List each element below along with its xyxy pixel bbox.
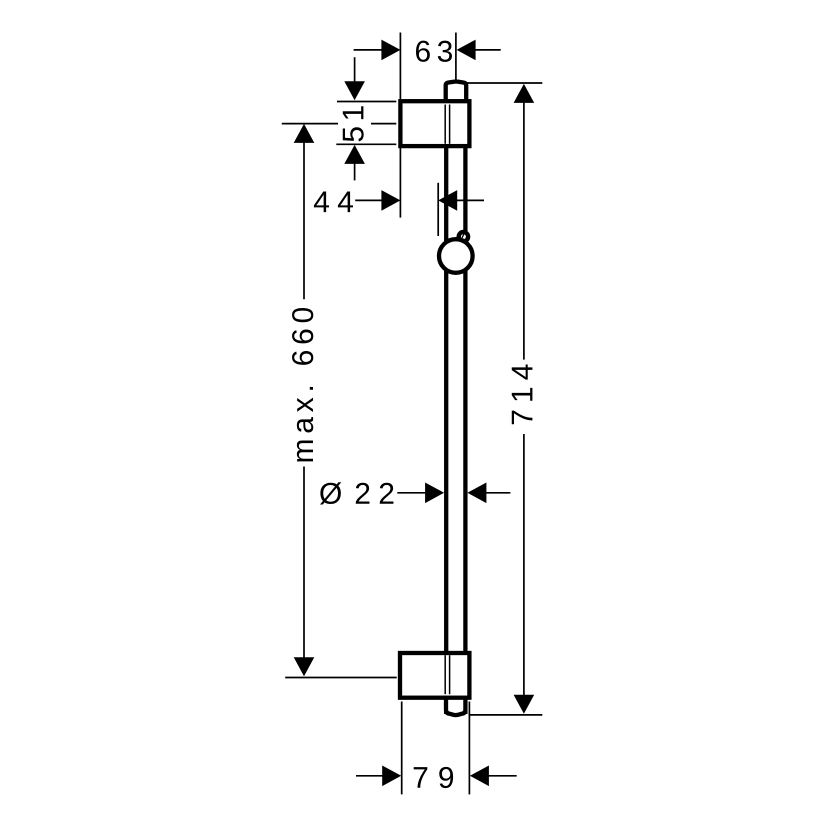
dim max660 upper stem [303, 142, 305, 299]
dim 44 extension line left [399, 148, 401, 218]
dim 63 right leader [475, 49, 501, 51]
bottom bracket hidden tube line a [444, 655, 446, 694]
dim 44 left arrow [438, 190, 457, 211]
dim max660 up arrow [294, 124, 315, 143]
dim 79 right leader [488, 775, 516, 777]
dim 79 left arrow head [470, 766, 489, 787]
dim max660 top reference line part1 [282, 123, 338, 125]
rail tube left edge [444, 84, 448, 714]
dim 51 top tick [337, 101, 396, 103]
dim 714 label [512, 364, 533, 424]
dim 63 left arrow [381, 40, 400, 61]
dim 714 lower stem [523, 434, 525, 695]
dim max660 label [292, 308, 313, 462]
slider hook [459, 231, 468, 242]
dim 63 extension line right [455, 33, 457, 81]
bottom bracket hidden tube line b [449, 655, 451, 694]
dim 79 left leader [356, 775, 383, 777]
dim 714 down arrow [514, 695, 535, 714]
top bracket hidden tube line a [444, 105, 446, 144]
dim 51 down arrow [344, 81, 365, 100]
dim 714 upper stem [523, 102, 525, 359]
top bracket hidden tube line b [449, 105, 451, 144]
dim 51 label [343, 106, 364, 141]
slider holder ring [439, 239, 473, 273]
dim 63 label [416, 41, 452, 62]
dim 79 extension line left [401, 702, 403, 795]
bottom end cap [446, 692, 465, 715]
dim max660 lower stem [303, 467, 305, 659]
dim diameter 22 right line [486, 492, 511, 494]
dim 714 top reference line [466, 82, 542, 84]
dim 44 extension line right [437, 183, 439, 236]
dim 63 left leader [354, 49, 383, 51]
top wall bracket [400, 101, 469, 146]
dim diameter 22 right arrow [425, 483, 444, 504]
dim 63 extension line left [399, 33, 401, 101]
dim diameter 22 leader [397, 492, 427, 494]
dim 51 lower stem [354, 163, 356, 180]
dim max660 top reference line part2 [371, 123, 396, 125]
dim 79 extension line right [468, 702, 470, 795]
dim 51 bottom tick [336, 143, 396, 145]
dim max660 bottom reference line [285, 677, 397, 679]
dim 714 bottom reference line [469, 714, 543, 716]
dim 63 right arrow [457, 40, 476, 61]
dim 44 right line [457, 199, 484, 201]
top end cap [446, 82, 467, 104]
dim 79 label [414, 767, 453, 788]
dim 44 label [314, 191, 353, 212]
dim 44 right arrow [381, 190, 400, 211]
dim diameter 22 label [320, 482, 393, 504]
dim 79 right arrow head [382, 766, 401, 787]
dim 51 up arrow [344, 145, 365, 164]
dim 44 leader [355, 199, 383, 201]
dim 51 upper stem [354, 57, 356, 83]
dim max660 down arrow [294, 657, 315, 676]
dim diameter 22 left arrow [467, 483, 486, 504]
bottom wall bracket [400, 653, 469, 698]
dim 714 up arrow [514, 84, 535, 103]
rail tube right edge [463, 84, 467, 714]
